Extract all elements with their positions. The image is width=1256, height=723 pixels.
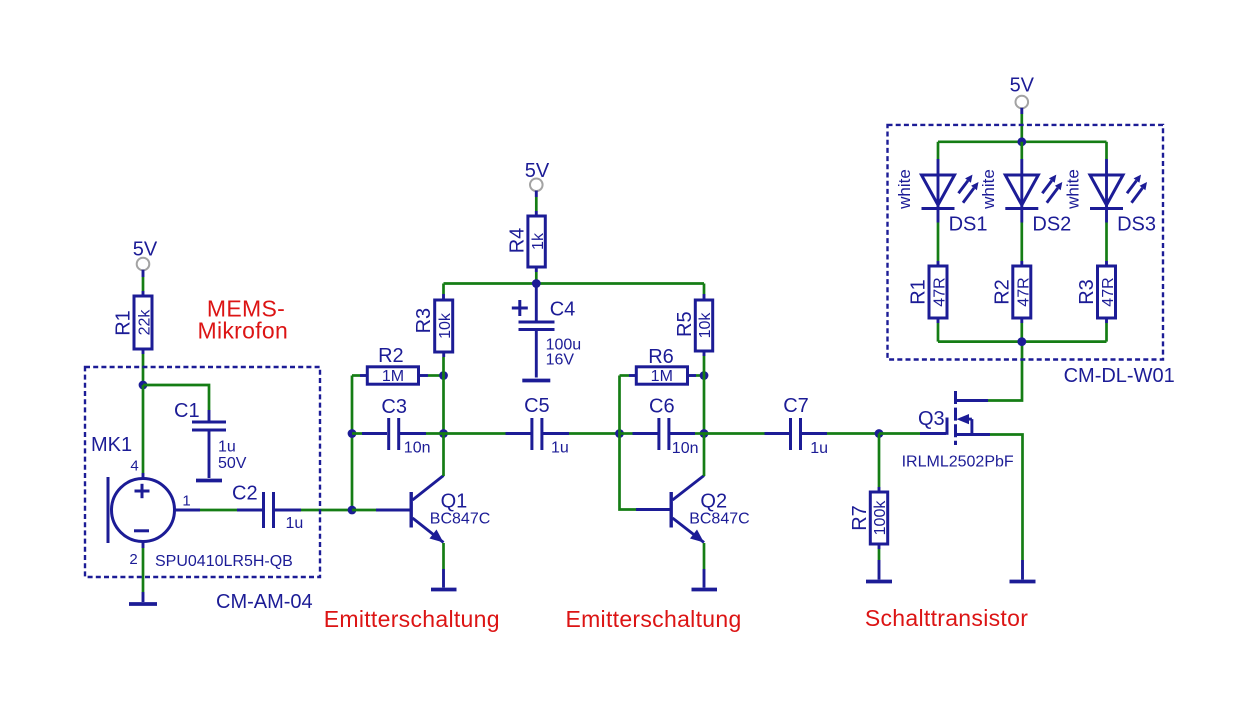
- ground (C1): [196, 479, 222, 483]
- LED DS3 white: [1090, 175, 1156, 236]
- wire R1 to bottom rail: [937, 318, 940, 342]
- svg-text:C3: C3: [381, 396, 407, 418]
- wire 5V to R1: [142, 270, 145, 296]
- node stage2 input junction: [615, 429, 624, 438]
- svg-text:white: white: [895, 169, 914, 210]
- svg-text:C5: C5: [524, 395, 550, 417]
- svg-text:1u: 1u: [810, 440, 828, 457]
- svg-text:16V: 16V: [546, 352, 575, 369]
- svg-text:Schalttransistor: Schalttransistor: [865, 605, 1028, 631]
- svg-text:100k: 100k: [872, 500, 889, 536]
- node stage2 output junction: [700, 429, 709, 438]
- red label Emitterschaltung 2: [565, 606, 741, 632]
- ground (Q2): [692, 588, 718, 592]
- svg-text:1u: 1u: [218, 439, 236, 456]
- wire Q1 emitter to ground: [442, 543, 445, 588]
- svg-text:R3: R3: [1076, 279, 1098, 305]
- svg-text:47R: 47R: [1015, 277, 1032, 306]
- ground (R7): [866, 580, 892, 584]
- svg-text:1M: 1M: [382, 368, 404, 385]
- wire Q1 base: [352, 509, 411, 512]
- pin number 1 (MK1): [182, 493, 190, 510]
- node Q1 base junction: [348, 506, 357, 515]
- ground (MK1): [129, 602, 157, 606]
- wire C7 right to R7 node: [802, 432, 879, 435]
- svg-text:1u: 1u: [286, 515, 304, 532]
- svg-text:47R: 47R: [1100, 277, 1117, 306]
- transistor Q1 BC847C: [411, 476, 490, 543]
- svg-text:1k: 1k: [530, 232, 547, 250]
- resistor R2 1M: [367, 345, 418, 385]
- wire 5V to LED board: [1020, 108, 1023, 142]
- svg-text:Mikrofon: Mikrofon: [198, 318, 289, 344]
- microphone MK1: [91, 434, 175, 543]
- resistor R6 1M: [636, 346, 687, 385]
- wire Q2 emitter to ground: [703, 543, 706, 588]
- svg-text:C2: C2: [232, 483, 258, 505]
- node LED top junction: [1017, 137, 1026, 146]
- svg-text:DS1: DS1: [949, 214, 988, 236]
- wire stage1 feedback rail: [351, 376, 354, 511]
- resistor R2 47R (LED board): [991, 266, 1032, 318]
- LED DS2 white: [1005, 175, 1071, 236]
- wire R2 to bottom rail: [1020, 318, 1023, 342]
- wire main line stage2 to C7: [704, 432, 789, 435]
- wire MK1 pin 1 to C2: [175, 509, 264, 512]
- wire node to Q3 gate: [879, 432, 946, 435]
- svg-text:1M: 1M: [651, 368, 673, 385]
- wire node A to MK1 pin 4: [142, 385, 145, 479]
- wire C1 to ground: [208, 431, 211, 478]
- LED DS2 value label white: [979, 169, 998, 210]
- svg-text:22k: 22k: [137, 309, 154, 336]
- svg-text:R3: R3: [413, 308, 435, 334]
- wire Q3 drain to LED board: [988, 342, 1022, 401]
- wire C3 left stub: [352, 432, 387, 435]
- svg-text:2: 2: [129, 551, 137, 568]
- wire node A to C1: [143, 385, 209, 421]
- svg-text:C7: C7: [783, 395, 809, 417]
- svg-text:R1: R1: [908, 279, 930, 305]
- svg-text:10k: 10k: [437, 312, 454, 339]
- wire MK1 pin 2 to ground: [142, 542, 145, 603]
- wire R2 right to R3 rail: [419, 374, 444, 377]
- LED DS1 white: [922, 175, 988, 236]
- wire 5V to R4: [535, 191, 538, 216]
- svg-text:1u: 1u: [551, 440, 569, 457]
- wire R2 left: [352, 374, 368, 377]
- wire R6 left: [620, 374, 637, 377]
- wire R3 bottom to junctions: [442, 352, 445, 434]
- LED DS1 value label white: [895, 169, 914, 210]
- svg-text:R4: R4: [506, 228, 528, 254]
- wire R5 bottom to junctions: [703, 351, 706, 434]
- ground (Q3 source): [1010, 580, 1036, 584]
- transistor Q3 IRLML2502PbF MOSFET: [902, 391, 1014, 471]
- capacitor C2 1u: [232, 483, 303, 533]
- wire R6 right to R5 rail: [688, 374, 705, 377]
- node R7/gate junction: [875, 429, 884, 438]
- wire C6 left stub: [620, 432, 658, 435]
- svg-text:Q2: Q2: [700, 491, 727, 513]
- svg-text:R2: R2: [378, 345, 404, 367]
- MK1 value label SPU0410LR5H-QB: [155, 553, 293, 570]
- module box CM-DL-W01: [888, 125, 1164, 360]
- capacitor C6 10n: [649, 395, 698, 457]
- svg-text:Q1: Q1: [441, 491, 468, 513]
- svg-text:CM-AM-04: CM-AM-04: [216, 591, 313, 613]
- svg-text:DS3: DS3: [1117, 214, 1156, 236]
- wire top rail corner to R3: [442, 284, 445, 301]
- resistor R5 10k: [674, 300, 714, 351]
- module label CM-DL-W01: [1064, 365, 1175, 387]
- wire R7 to ground: [878, 544, 881, 580]
- capacitor C1 1u 50V: [174, 400, 247, 472]
- red label MEMS-Mikrofon: [198, 296, 289, 344]
- supply symbol 5V (middle): [525, 160, 550, 191]
- svg-text:R1: R1: [113, 310, 135, 336]
- wire Q3 source to ground: [990, 435, 1023, 580]
- svg-text:4: 4: [130, 458, 138, 475]
- svg-text:C1: C1: [174, 400, 200, 422]
- pin number 2 (MK1): [129, 551, 137, 568]
- node LED bottom junction: [1017, 337, 1026, 346]
- wire R1 to node A: [142, 349, 145, 385]
- node stage1 output junction: [439, 429, 448, 438]
- resistor R7 100k: [849, 492, 889, 544]
- svg-text:BC847C: BC847C: [689, 511, 749, 528]
- node A junction: [139, 381, 148, 390]
- LED DS3 value label white: [1064, 169, 1083, 210]
- node R2/R3 junction: [439, 371, 448, 380]
- svg-text:C6: C6: [649, 395, 675, 417]
- svg-text:5V: 5V: [1010, 75, 1035, 97]
- wire Q2 collector: [703, 434, 706, 477]
- wire Q1 collector: [442, 434, 445, 477]
- resistor R1 22k: [113, 296, 154, 349]
- wire LED column 3 anode: [1105, 142, 1108, 266]
- wire stage2 feedback rail: [620, 376, 637, 510]
- svg-text:R6: R6: [648, 346, 674, 368]
- wire R3 to bottom rail: [1105, 318, 1108, 342]
- svg-text:10k: 10k: [697, 312, 714, 339]
- wire C5 right to stage2 node: [543, 432, 620, 435]
- svg-text:IRLML2502PbF: IRLML2502PbF: [902, 454, 1014, 471]
- svg-text:C4: C4: [550, 299, 576, 321]
- resistor R1 47R (LED board): [908, 266, 949, 318]
- wire Q2 base stub: [636, 508, 671, 511]
- pin number 4 (MK1): [130, 458, 138, 475]
- svg-text:10n: 10n: [404, 440, 431, 457]
- svg-text:DS2: DS2: [1032, 214, 1071, 236]
- capacitor C4 100u 16V polarized: [512, 299, 581, 369]
- capacitor C5 1u: [524, 395, 569, 457]
- svg-text:R5: R5: [674, 311, 696, 337]
- wire LED bottom rail: [938, 340, 1107, 343]
- wire C6 right stub: [670, 432, 704, 435]
- red label Emitterschaltung 1: [324, 606, 500, 632]
- node top rail junction: [532, 279, 541, 288]
- svg-text:CM-DL-W01: CM-DL-W01: [1064, 365, 1175, 387]
- svg-text:Q3: Q3: [918, 408, 945, 430]
- svg-text:SPU0410LR5H-QB: SPU0410LR5H-QB: [155, 553, 293, 570]
- capacitor C7 1u: [783, 395, 828, 457]
- svg-text:R7: R7: [849, 505, 871, 531]
- ground (Q1): [431, 588, 457, 592]
- resistor R3 47R (LED board): [1076, 266, 1117, 318]
- wire R4 to top rail: [535, 267, 538, 284]
- svg-text:Emitterschaltung: Emitterschaltung: [324, 606, 500, 632]
- module label CM-AM-04: [216, 591, 313, 613]
- svg-text:MK1: MK1: [91, 434, 132, 456]
- wire LED column 1 anode: [937, 142, 940, 266]
- wire C2 to Q1 base node: [275, 509, 353, 512]
- svg-text:10n: 10n: [672, 440, 699, 457]
- wire rail to C4: [535, 284, 538, 322]
- svg-text:1: 1: [182, 493, 190, 510]
- svg-text:white: white: [979, 169, 998, 210]
- svg-text:white: white: [1064, 169, 1083, 210]
- wire LED column 2 anode: [1020, 142, 1023, 266]
- wire top supply rail: [444, 282, 705, 285]
- module box CM-AM-04: [85, 367, 320, 577]
- wire C3 right stub: [400, 432, 444, 435]
- svg-text:R2: R2: [991, 279, 1013, 305]
- wire main line C3 junction to C5: [444, 432, 531, 435]
- svg-text:47R: 47R: [932, 277, 949, 306]
- svg-text:50V: 50V: [218, 455, 247, 472]
- resistor R3 10k: [413, 300, 454, 352]
- transistor Q2 BC847C: [671, 476, 749, 543]
- ground (C4): [522, 379, 550, 383]
- svg-text:BC847C: BC847C: [430, 511, 490, 528]
- wire top rail corner to R5: [703, 284, 706, 301]
- node R5/R6 junction: [700, 371, 709, 380]
- supply symbol 5V (left): [133, 239, 158, 271]
- node stage1 C3 left junction: [348, 429, 357, 438]
- supply symbol 5V (right): [1010, 75, 1035, 109]
- resistor R4 1k: [506, 216, 546, 267]
- wire C4 to ground: [535, 331, 538, 378]
- svg-text:Emitterschaltung: Emitterschaltung: [565, 606, 741, 632]
- wire LED top rail: [938, 140, 1107, 143]
- capacitor C3 10n: [381, 396, 430, 457]
- wire node to R7: [878, 434, 881, 493]
- red label Schalttransistor: [865, 605, 1028, 631]
